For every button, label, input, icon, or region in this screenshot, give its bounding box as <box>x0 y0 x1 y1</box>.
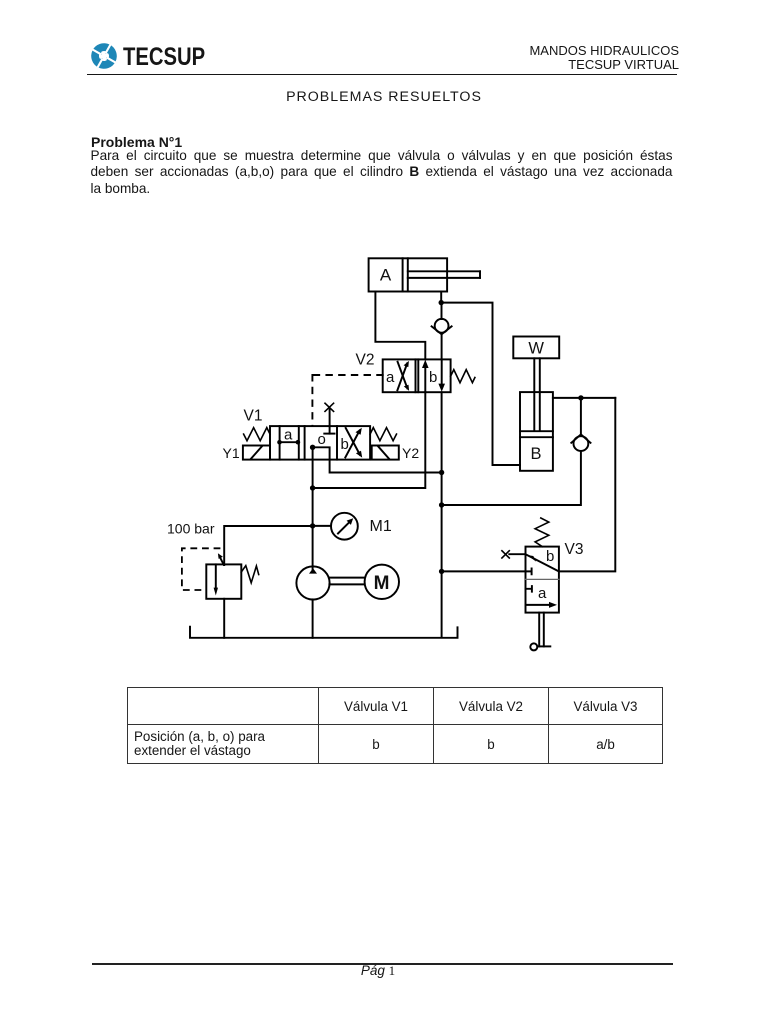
pressure relief valve PRV <box>206 564 241 598</box>
node V1 center P port <box>310 445 315 450</box>
wire relief valve to tank rail <box>223 599 225 638</box>
valve V1 body <box>270 426 370 460</box>
svg-text:b: b <box>429 369 437 386</box>
svg-text:b: b <box>341 436 349 453</box>
tank rail <box>190 627 458 638</box>
svg-text:M1: M1 <box>370 518 392 535</box>
check valve CV2 <box>571 434 590 451</box>
problema heading <box>91 134 182 150</box>
valve V2 pilot line dashed <box>312 375 382 426</box>
header rule <box>87 74 677 76</box>
title <box>0 89 768 105</box>
valve V2 position a crossed arrows <box>397 361 409 391</box>
node supply-V2 junction <box>310 485 315 490</box>
valve V1 right spring <box>370 428 396 441</box>
electric motor M <box>365 565 399 599</box>
wire relief valve tap <box>224 526 312 565</box>
valve V3 port b blocked stub <box>526 569 532 575</box>
gauge M1 <box>331 513 358 540</box>
wire V2 port b-bottom tank line down to rail <box>441 392 443 637</box>
valve V3 spring <box>535 518 549 547</box>
valve V1 center position blocked port T <box>324 426 334 434</box>
logo TECSUP icon <box>90 42 118 70</box>
valve V3 closed port marker x <box>502 551 509 558</box>
wire check valve CV2 up to node B <box>580 398 582 435</box>
svg-text:M: M <box>374 573 390 594</box>
valve V3 roller plunger <box>530 613 550 651</box>
valve V1 right solenoid Y2 <box>372 446 399 460</box>
node tank line / V1 return <box>439 470 444 475</box>
valve V2 body <box>383 359 451 392</box>
svg-text:100 bar: 100 bar <box>167 521 215 537</box>
valve V1 left solenoid Y1 <box>243 446 270 460</box>
wire node to cylinder B bottom port <box>441 303 520 465</box>
svg-text:B: B <box>530 445 541 463</box>
wire cylinder A left port to valve V2 port a-top <box>375 292 425 360</box>
wire gauge tap to gauge M1 <box>313 525 331 527</box>
node cylinder B top port junction <box>578 395 583 400</box>
wire pump to tank rail <box>312 599 314 637</box>
relief valve pilot line dashed <box>182 548 220 590</box>
svg-text:a: a <box>538 585 547 602</box>
footer rule <box>92 963 673 964</box>
wire node down to check valve CV1 <box>441 303 443 319</box>
pump-motor shaft <box>329 578 364 585</box>
wire V1 center port to tank line <box>313 447 442 472</box>
piston rod W to cylinder B <box>534 358 540 431</box>
valve V1 position b crossed arrows <box>345 428 362 458</box>
valve V3 position a stub <box>526 586 532 592</box>
header right text <box>0 44 679 71</box>
wire V2 port a-bottom to supply junction <box>313 392 426 488</box>
cylinder A <box>369 258 480 291</box>
wire riser down to V3 right port <box>559 398 615 572</box>
wire tank line to check valve CV2 <box>442 451 581 505</box>
node gauge tap <box>310 523 315 528</box>
svg-text:V3: V3 <box>565 541 584 558</box>
svg-text:a: a <box>284 427 293 444</box>
svg-text:A: A <box>380 266 392 285</box>
check valve CV1 <box>432 319 452 334</box>
svg-text:W: W <box>528 340 544 358</box>
valve V1 position a symbol <box>277 440 300 445</box>
wire x marker to valve V3 <box>509 553 525 555</box>
weight W box <box>513 337 559 359</box>
svg-text:Y1: Y1 <box>223 445 240 461</box>
wire tank line node to V3 left port <box>442 570 526 572</box>
pump P1 <box>296 566 329 599</box>
svg-text:V1: V1 <box>244 408 263 425</box>
wire cylinder A right port down to node <box>440 292 442 303</box>
svg-text:Y2: Y2 <box>402 445 419 461</box>
paragraph <box>91 148 673 198</box>
svg-text:V2: V2 <box>356 352 375 369</box>
valve V3 position b flow path <box>526 554 559 571</box>
relief valve adjust arrow <box>218 553 224 565</box>
node tank line / V3 branch <box>439 569 444 574</box>
valve V1 left spring <box>244 428 270 441</box>
logo TECSUP wordmark <box>123 43 205 72</box>
svg-text:a: a <box>386 369 395 386</box>
cylinder B <box>520 392 553 471</box>
wire check valve CV1 to valve V2 port b-top <box>441 333 443 359</box>
valve V1 center vent line with closed marker x <box>325 403 334 426</box>
footer page number <box>0 963 762 979</box>
results table <box>127 687 663 764</box>
valve V3 position a flow arrow <box>526 602 557 608</box>
svg-text:b: b <box>546 548 554 565</box>
wire pump to V1 supply line <box>312 447 314 569</box>
valve V3 body <box>526 547 559 613</box>
node junction at cylinder A right <box>439 300 444 305</box>
relief valve spring <box>241 566 258 583</box>
valve V2 spring <box>451 370 475 383</box>
valve V2 position b straight arrows <box>422 359 445 392</box>
wire cylinder B top port to V3 riser <box>553 397 615 399</box>
node tank line / check valve CV2 branch <box>439 502 444 507</box>
